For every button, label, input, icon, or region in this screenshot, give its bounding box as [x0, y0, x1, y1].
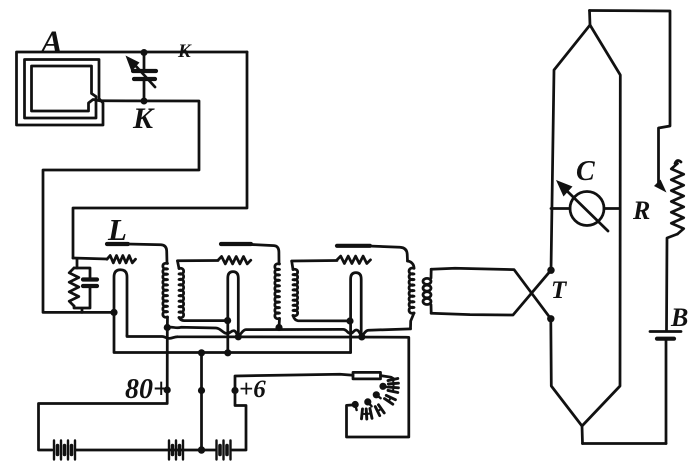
rheostat tap studs — [379, 383, 386, 390]
bus C: filament - bus — [114, 312, 351, 352]
wire: T3 secondary bottom to cross — [431, 270, 551, 315]
battery (filament) right — [169, 441, 183, 460]
transformer T1 primary — [163, 263, 168, 317]
transformer T3 secondary — [423, 278, 431, 304]
svg-text:C: C — [576, 156, 595, 187]
svg-text:K: K — [177, 41, 192, 62]
node: riser mid junction — [198, 387, 205, 394]
svg-text:R: R — [632, 196, 650, 225]
wire: frame top to right branch — [590, 11, 671, 186]
tube L3 plate — [337, 244, 370, 248]
wire between batteries — [76, 449, 215, 452]
tube L1 filament — [114, 270, 127, 336]
node: T2 secondary to L3 filament — [346, 317, 353, 324]
tube L2 filament — [228, 272, 239, 353]
node: cross lower — [547, 315, 554, 322]
wire: top feed down right side to grid — [73, 52, 247, 258]
node: 80+ on bus A — [164, 324, 171, 331]
wire: bottom of frame to battery branch — [583, 442, 667, 445]
tube L1 grid — [73, 258, 107, 259]
node: cross upper — [547, 267, 554, 274]
svg-text:B: B — [670, 303, 688, 332]
svg-text:80+: 80+ — [125, 374, 169, 405]
fixed resistor (rectangle) — [353, 372, 381, 379]
capacitor C (circle with arrow) — [551, 207, 570, 210]
battery B — [650, 330, 681, 333]
bus B: filament + bus — [127, 336, 409, 438]
transformer T1 secondary — [179, 268, 184, 318]
tube L3 filament — [351, 273, 362, 353]
svg-text:T: T — [551, 277, 568, 304]
node: 80+ label junction — [164, 386, 171, 393]
rheostat arc with taps — [381, 376, 395, 380]
frame loop lower-left — [551, 319, 583, 444]
transformer T2 primary — [275, 264, 280, 319]
grid leak resistor + capacitor (parallel) — [74, 259, 77, 268]
node: battery junction — [198, 446, 205, 453]
node: L2 filament on bus C — [224, 349, 231, 356]
variable capacitor K — [126, 52, 157, 101]
wire: loop inner end to filament side — [43, 101, 199, 313]
wire: +6 connection — [232, 374, 353, 450]
node: grid-leak / filament junction — [110, 309, 117, 316]
loop antenna A (spiral frame) — [17, 52, 248, 125]
battery (anode) left — [54, 441, 75, 460]
tube L1 plate — [107, 242, 128, 246]
svg-text:A: A — [39, 25, 63, 61]
node: cap top junction — [141, 49, 148, 56]
tube L3 grid wire — [292, 259, 337, 262]
node: L2 filament on bus B — [235, 333, 242, 340]
tube L2 grid wire — [178, 259, 219, 262]
node: T1 secondary to L2 filament — [224, 317, 231, 324]
rheostat R element — [675, 161, 681, 164]
svg-text:K: K — [132, 102, 155, 135]
frame loop left/top — [551, 11, 590, 271]
node: +6 junction — [231, 387, 238, 394]
svg-text:L: L — [107, 212, 127, 247]
tube L2 plate — [221, 242, 251, 246]
wire: 80+ riser — [39, 328, 168, 451]
svg-text:+6: +6 — [239, 376, 266, 403]
node: L3 filament on bus B — [358, 333, 365, 340]
wire: T3 secondary top to cross — [431, 268, 551, 319]
rheostat R slider arrow — [654, 180, 667, 193]
node: T2 primary on bus A — [275, 324, 282, 331]
frame loop right — [582, 25, 620, 426]
bus A: +80 plate bus — [167, 327, 410, 335]
transformer T2 secondary — [293, 269, 298, 315]
node: battery riser on bus C — [198, 349, 205, 356]
battery (middle) — [217, 441, 231, 460]
wire: mid-battery riser — [200, 353, 203, 450]
transformer T3 primary — [409, 268, 414, 313]
node: cap bottom junction — [141, 98, 148, 105]
